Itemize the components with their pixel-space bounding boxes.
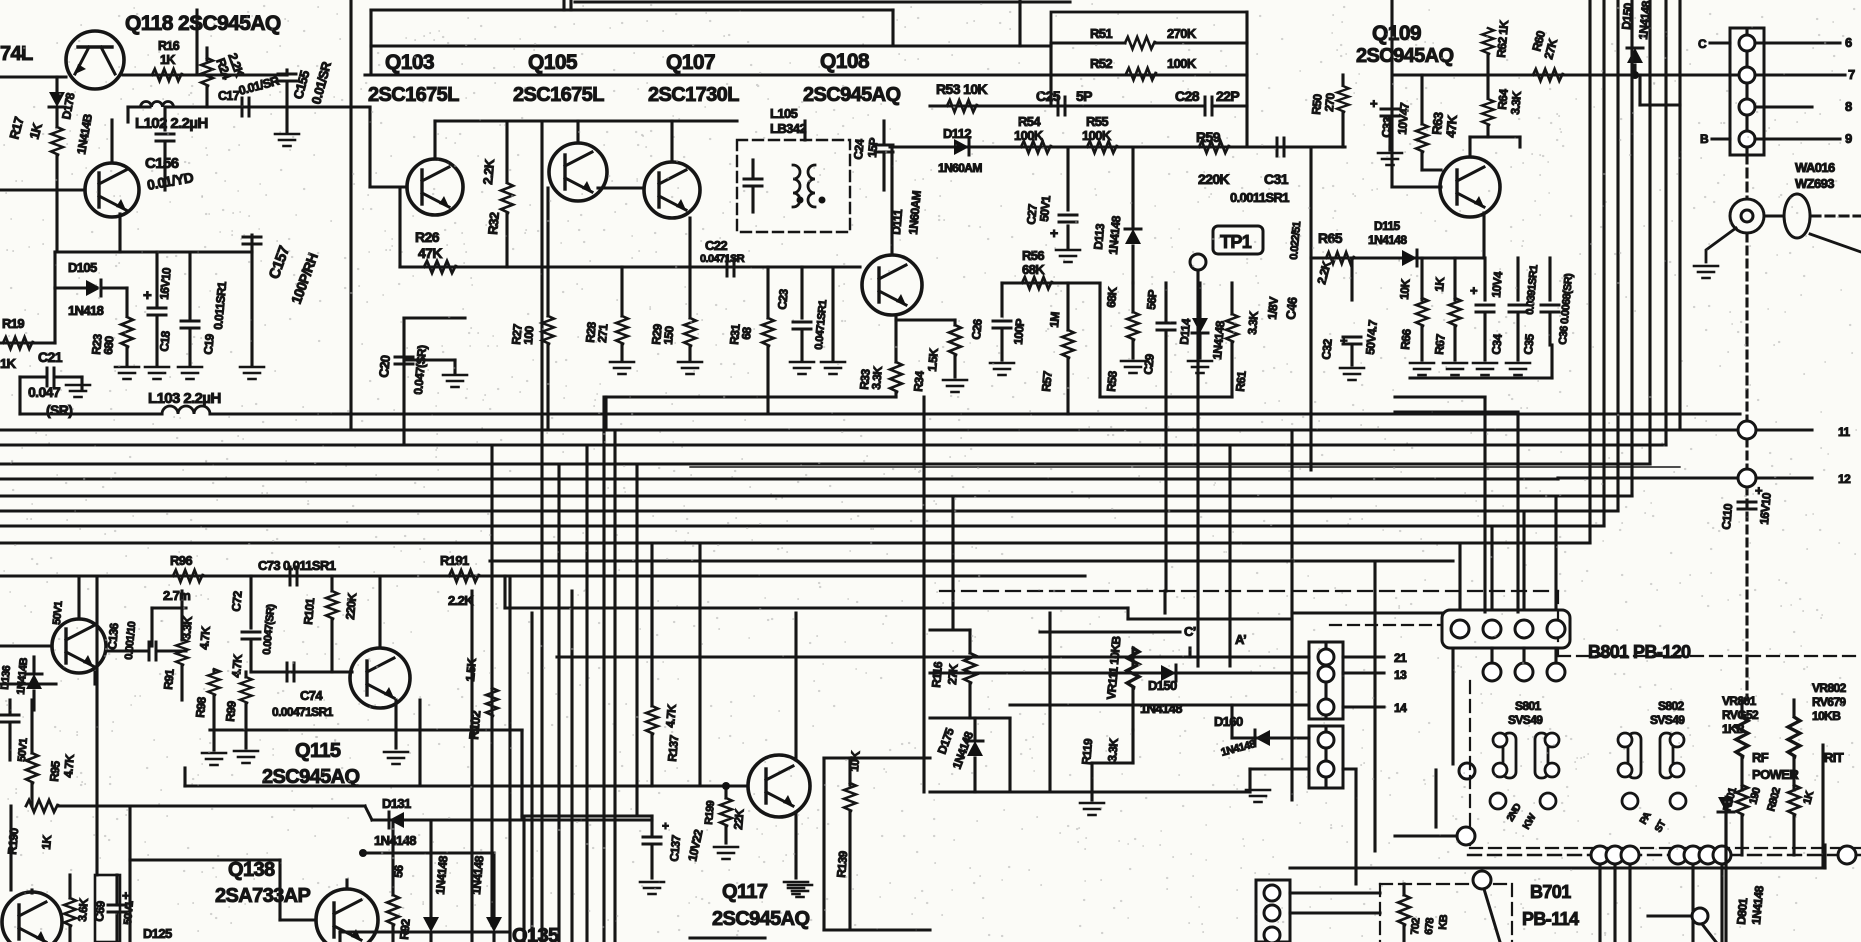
wire (882, 152, 885, 190)
junction (722, 782, 730, 790)
wire Q117 base rail (185, 784, 747, 787)
wire (1324, 726, 1327, 788)
wire (848, 758, 851, 785)
svg-text:5P: 5P (1076, 88, 1092, 104)
resistor R199 (720, 798, 732, 826)
svg-text:+: + (122, 888, 130, 903)
svg-text:150: 150 (661, 325, 677, 345)
svg-text:1N60AM: 1N60AM (938, 161, 982, 175)
ground (1080, 803, 1104, 815)
svg-text:2.2K: 2.2K (1314, 259, 1334, 286)
wire (650, 734, 653, 786)
svg-text:R62 1K: R62 1K (1494, 19, 1511, 58)
svg-text:10V22: 10V22 (685, 828, 705, 863)
wire trunk (1373, 561, 1376, 851)
svg-text:1K: 1K (39, 834, 54, 850)
resistor R26 (424, 261, 456, 273)
wire (55, 250, 190, 253)
wire (1395, 395, 1485, 398)
svg-text:C17: C17 (218, 89, 240, 103)
wire trunk (557, 464, 560, 942)
wire (404, 316, 465, 319)
svg-text:C21: C21 (38, 349, 63, 365)
svg-text:50V1: 50V1 (16, 738, 30, 763)
wire C29 column (1164, 283, 1167, 320)
wire (68, 926, 71, 942)
resistor R59 (1199, 141, 1229, 153)
wire (1292, 611, 1442, 614)
wire (891, 10, 894, 45)
wire (973, 758, 976, 792)
svg-text:R802: R802 (1765, 786, 1783, 813)
ground (990, 363, 1014, 375)
svg-text:C74: C74 (300, 688, 323, 703)
wire (1821, 745, 1824, 868)
svg-text:2SC945AQ: 2SC945AQ (712, 908, 810, 930)
connector CN-top (1442, 610, 1570, 648)
junction node (1606, 846, 1624, 864)
resistor R51 (1125, 37, 1155, 49)
wire bus L103 line (210, 412, 1740, 415)
svg-text:678: 678 (1423, 917, 1436, 935)
wire Q109 emitter (1482, 213, 1485, 258)
wire rail 619 (1128, 617, 1292, 620)
wire (569, 0, 572, 10)
wire banner left edge (369, 10, 372, 75)
svg-text:D150: D150 (1148, 678, 1177, 693)
switch node 2 (1692, 908, 1708, 924)
wire (1343, 671, 1384, 674)
wire Q119 emitter (118, 214, 121, 252)
wire (68, 875, 71, 898)
svg-text:C23: C23 (775, 288, 791, 310)
svg-text:3.3K: 3.3K (1508, 90, 1524, 115)
wire (190, 250, 252, 253)
resistor R116 (964, 653, 976, 683)
wire (1350, 258, 1353, 300)
ground (1340, 368, 1364, 380)
wire trunk (635, 464, 638, 816)
svg-text:271: 271 (595, 323, 611, 343)
transistor Q136 (52, 619, 106, 673)
wire (249, 642, 252, 672)
resistor R101 (326, 591, 338, 619)
connector pin (1264, 885, 1280, 901)
wire dashed (1812, 214, 1861, 217)
wire (1550, 345, 1553, 378)
wire (1324, 642, 1327, 719)
diode D114 (1192, 318, 1208, 333)
wire (1131, 246, 1134, 283)
wire (0, 341, 55, 344)
wire (1100, 395, 1232, 398)
wire (1354, 769, 1357, 884)
capacitor C26 (993, 321, 1011, 328)
junction node (1591, 846, 1609, 864)
wire (1633, 65, 1636, 75)
svg-text:VR802: VR802 (1812, 681, 1847, 695)
wire (1470, 135, 1520, 138)
wire banner top (371, 44, 1051, 47)
wire (1350, 347, 1353, 365)
svg-text:270K: 270K (1167, 26, 1197, 41)
switch pin (1490, 793, 1506, 809)
wire dashed B801 left (1469, 681, 1471, 848)
svg-text:C: C (1698, 37, 1707, 51)
resistor R58 (1127, 312, 1139, 340)
wire Q118 emitter to R16 (123, 73, 190, 76)
wire (285, 84, 288, 132)
wire (0, 644, 51, 647)
wire (1164, 333, 1167, 591)
wire (30, 783, 33, 806)
svg-text:1K: 1K (160, 53, 175, 67)
wire (1092, 761, 1133, 764)
svg-text:R61: R61 (1233, 370, 1249, 392)
wire (520, 730, 523, 820)
capacitor C156 (156, 134, 174, 141)
ground (610, 362, 634, 374)
capacitor L105 tuning (744, 179, 762, 186)
wire (724, 826, 727, 843)
wire R53 rail (930, 104, 1052, 107)
resistor R95 (26, 753, 38, 783)
wire dashed (1379, 884, 1381, 942)
svg-text:2SC1730L: 2SC1730L (648, 84, 739, 106)
svg-text:190: 190 (1747, 786, 1763, 806)
wire (1518, 137, 1521, 147)
junction node (1669, 846, 1687, 864)
wire (188, 331, 191, 365)
wire (249, 576, 252, 628)
wire (429, 820, 432, 916)
wire (1131, 147, 1134, 226)
svg-text:C’: C’ (1184, 624, 1196, 639)
transformer L105 outline (737, 140, 850, 232)
wire (188, 252, 191, 318)
transistor Q105 (549, 143, 607, 201)
svg-text:13: 13 (1394, 668, 1407, 682)
wire fan (1588, 0, 1591, 543)
wire (1764, 215, 1784, 218)
wire (1613, 864, 1616, 942)
wire (1155, 41, 1247, 44)
wire dashed (1745, 234, 1748, 421)
wire bus 7 (0, 509, 1618, 512)
switch pin (1622, 793, 1638, 809)
resistor R64 (1482, 99, 1494, 125)
wire bus 5 (0, 477, 1558, 480)
wire (1048, 613, 1051, 792)
wire (1131, 340, 1134, 358)
wire (0, 188, 85, 191)
wire (244, 672, 247, 677)
ground (202, 753, 226, 765)
connector pin (1318, 732, 1334, 748)
svg-text:50V1: 50V1 (51, 601, 65, 626)
svg-text:C28: C28 (1175, 88, 1200, 104)
resistor R31 (762, 318, 774, 346)
ground (1410, 363, 1434, 375)
wire C137 rail (522, 814, 652, 817)
svg-text:R199: R199 (703, 800, 717, 825)
svg-text:C72: C72 (229, 590, 245, 612)
svg-text:50V1: 50V1 (1037, 195, 1053, 223)
diode D175 (967, 741, 983, 756)
wire switch lever 2 (1702, 924, 1716, 942)
wire trunk (530, 613, 533, 942)
wire (1756, 476, 1812, 479)
resistor R19 (3, 337, 33, 349)
wire (1486, 54, 1489, 98)
resistor R27 (542, 316, 554, 344)
wire R96 rail (0, 574, 1085, 577)
capacitor C137 (643, 837, 661, 844)
wire Q117 collector (794, 613, 797, 760)
connector pin row2 (1515, 663, 1533, 681)
svg-text:D131: D131 (382, 796, 411, 811)
wire (1422, 168, 1441, 171)
svg-text:1N414B: 1N414B (15, 657, 30, 695)
svg-text:WA016: WA016 (1795, 160, 1835, 175)
wire bus 2 (0, 428, 1741, 431)
svg-text:2SC945AQ: 2SC945AQ (1356, 45, 1454, 67)
resistor R60 (1533, 69, 1563, 81)
svg-text:1N60AM: 1N60AM (906, 190, 924, 235)
wire (185, 784, 522, 787)
wire (1451, 648, 1454, 764)
wire jog (365, 806, 372, 820)
wire (210, 728, 522, 731)
wire (1486, 125, 1489, 137)
svg-text:16V10: 16V10 (157, 267, 174, 301)
wire (1000, 283, 1003, 316)
wire Q103 collector (433, 121, 436, 159)
svg-text:C26: C26 (969, 318, 985, 340)
svg-text:Q109: Q109 (1372, 22, 1421, 45)
svg-text:220K: 220K (1198, 171, 1230, 187)
wire (1548, 315, 1551, 345)
resistor R801 (1736, 785, 1748, 815)
wire R31 column (766, 267, 769, 318)
transistor Q109 (1440, 157, 1500, 217)
svg-text:220K: 220K (343, 592, 359, 620)
transistor Q140 (2, 892, 62, 942)
wire (391, 925, 394, 942)
wire (1483, 315, 1486, 360)
wire Q105-Q107 link (598, 186, 644, 189)
wire left drop (95, 577, 98, 875)
capacitor C69 (108, 905, 126, 912)
wire dashed shield (940, 590, 1558, 592)
svg-text:D112: D112 (943, 126, 971, 141)
resistor R28 (616, 316, 628, 344)
capacitor C25 (1058, 97, 1065, 115)
svg-text:4.7K: 4.7K (229, 653, 245, 678)
svg-text:C35: C35 (1521, 333, 1537, 355)
wire (1483, 258, 1486, 300)
wire (894, 392, 897, 397)
svg-text:4.7K: 4.7K (197, 625, 213, 650)
wire (1245, 12, 1248, 147)
coax jack inner (1741, 210, 1753, 222)
svg-text:10KB: 10KB (1812, 709, 1841, 723)
diode D136 (26, 674, 42, 689)
svg-text:0.01/SR: 0.01/SR (308, 59, 334, 105)
ground (640, 882, 664, 894)
ground (1473, 363, 1497, 375)
svg-text:1.5K: 1.5K (463, 657, 479, 682)
wire fan (1648, 0, 1651, 464)
svg-text:R16: R16 (158, 39, 180, 53)
wire (1290, 911, 1380, 914)
wire (368, 107, 371, 187)
inductor L103 (162, 406, 210, 414)
ground (1506, 363, 1530, 375)
ground (943, 380, 967, 392)
ground (1188, 361, 1212, 373)
svg-text:C22: C22 (705, 238, 727, 253)
svg-text:B: B (1700, 132, 1709, 146)
resistor R96 (173, 570, 203, 582)
svg-text:S801: S801 (1515, 699, 1542, 713)
svg-text:R67: R67 (1432, 333, 1448, 355)
wire (751, 189, 754, 212)
wire (1126, 608, 1129, 619)
svg-text:L103 2.2µH: L103 2.2µH (148, 390, 221, 407)
wire (278, 860, 281, 920)
wire (402, 318, 405, 445)
wire R33 rail (606, 395, 896, 398)
wire (30, 700, 33, 753)
svg-text:LB342: LB342 (770, 121, 806, 136)
svg-text:4.7K: 4.7K (61, 753, 77, 778)
capacitor C34 (1476, 305, 1494, 312)
wire dashed (1745, 439, 1748, 469)
ground (275, 134, 299, 146)
svg-text:R53 10K: R53 10K (936, 81, 988, 97)
connector pin (1739, 35, 1755, 51)
wire (244, 703, 247, 748)
wire (166, 105, 370, 108)
diode D133 (423, 917, 439, 932)
capacitor C22 (727, 258, 734, 276)
capacitor C73 (290, 567, 297, 585)
wire fan (1616, 0, 1619, 511)
svg-text:3.3K: 3.3K (1105, 737, 1121, 762)
wire long return (1290, 866, 1825, 869)
wire (1388, 147, 1391, 150)
capacitor C32 (1343, 337, 1361, 344)
wire coax tail (1706, 228, 1736, 262)
wire (1740, 815, 1743, 855)
wire (1066, 147, 1069, 210)
wire (1691, 864, 1694, 942)
svg-text:R99: R99 (223, 700, 239, 722)
svg-text:Q108: Q108 (820, 50, 870, 73)
wire (150, 608, 153, 646)
wire (930, 716, 1010, 719)
capacitor C110 (1738, 502, 1756, 509)
capacitor C155 (278, 74, 296, 81)
wire dashed to CN-top (1330, 624, 1440, 626)
svg-text:1N4148: 1N4148 (1368, 233, 1407, 247)
wire (1388, 119, 1391, 150)
svg-text:RIT: RIT (1824, 750, 1844, 765)
resistor R16 (152, 69, 182, 81)
wire (1740, 700, 1743, 716)
ground (790, 362, 814, 374)
wire (1458, 543, 1461, 610)
wire Q105 collector (576, 121, 579, 143)
svg-text:B801 PB-120: B801 PB-120 (1588, 642, 1691, 662)
wire (803, 121, 806, 140)
wire (32, 657, 35, 672)
wire (766, 346, 769, 414)
wire trunk (1290, 430, 1293, 800)
ground (66, 385, 90, 397)
svg-text:1K: 1K (1432, 276, 1447, 292)
svg-text:R102: R102 (466, 710, 483, 740)
svg-text:R52: R52 (1090, 56, 1112, 71)
svg-text:PB-114: PB-114 (1522, 909, 1579, 929)
wire (155, 252, 158, 305)
wire (492, 853, 495, 916)
ground Q117 label (788, 885, 812, 897)
wire feed to B801 (1483, 397, 1486, 612)
wire (163, 144, 166, 190)
wire (20, 412, 162, 415)
resistor R190 (26, 800, 58, 812)
connector pin row2 (1547, 663, 1565, 681)
resistor R66 (1416, 298, 1428, 326)
wire fan (1630, 0, 1633, 496)
resistor R34 (949, 325, 961, 355)
switch S802 pole (1628, 733, 1641, 778)
wire (212, 670, 215, 672)
diode D160 (1255, 730, 1270, 746)
wire (1792, 815, 1795, 855)
svg-text:100P/RH: 100P/RH (288, 251, 321, 306)
wire (158, 649, 186, 652)
svg-text:7: 7 (1848, 67, 1855, 82)
connector J1 (1730, 28, 1764, 155)
coax jack outer (1730, 199, 1764, 233)
svg-text:R34: R34 (911, 370, 927, 392)
svg-text:100P: 100P (1011, 318, 1027, 345)
resistor R62 (1482, 28, 1494, 54)
svg-text:C46: C46 (1283, 297, 1300, 321)
svg-text:9: 9 (1845, 131, 1852, 146)
wire (115, 912, 118, 942)
wire R58 column (1131, 283, 1134, 312)
svg-text:10V47: 10V47 (1395, 102, 1412, 136)
svg-text:B701: B701 (1530, 882, 1571, 902)
svg-text:C19: C19 (201, 333, 217, 355)
resistor R53 (947, 100, 977, 112)
wire (1341, 112, 1344, 147)
wire (1232, 736, 1309, 739)
wire (1066, 358, 1069, 414)
svg-text:0.047: 0.047 (28, 384, 61, 400)
wire (1131, 688, 1134, 730)
wire (650, 816, 653, 836)
junction (1631, 71, 1639, 79)
wire (1420, 326, 1423, 360)
svg-text:R57: R57 (1039, 370, 1055, 392)
wire (751, 160, 754, 176)
svg-text:2.2K: 2.2K (480, 158, 497, 185)
